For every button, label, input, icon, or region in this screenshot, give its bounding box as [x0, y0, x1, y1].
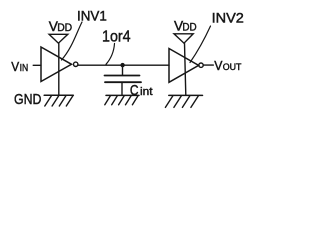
- svg-text:V: V: [214, 58, 223, 73]
- svg-text:GND: GND: [14, 91, 41, 108]
- svg-text:OUT: OUT: [223, 62, 242, 72]
- svg-text:1or4: 1or4: [102, 29, 131, 46]
- svg-text:INV1: INV1: [77, 8, 107, 23]
- svg-text:DD: DD: [182, 21, 196, 33]
- svg-text:IN: IN: [20, 63, 29, 74]
- svg-text:V: V: [11, 59, 19, 74]
- svg-text:DD: DD: [57, 22, 72, 34]
- svg-text:C: C: [130, 83, 139, 99]
- svg-text:int: int: [140, 86, 153, 98]
- svg-text:INV2: INV2: [212, 10, 245, 26]
